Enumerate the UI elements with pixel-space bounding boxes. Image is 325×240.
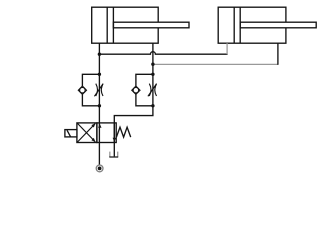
cylinder 1 piston xyxy=(107,7,113,43)
node: junction wire B on line 2 xyxy=(151,62,154,65)
cylinder 2 body xyxy=(218,7,286,43)
exhaust cup below U1 port R xyxy=(109,152,118,157)
U1 straight flow path B to R (arrow down) xyxy=(113,123,115,143)
solenoid coil of U1 xyxy=(65,130,77,137)
4/2 valve U1: right square (rest position) xyxy=(97,123,116,143)
wire A gray riser to cylinder 2 left port xyxy=(226,43,228,54)
check valve V2 (diamond + ball) xyxy=(132,86,140,94)
cylinder 2 piston xyxy=(234,7,240,43)
wire A: horizontal run to cylinder 2 left port (with jump over line 2) xyxy=(99,52,227,55)
wire: main line from cylinder 1 left port down to valve port A xyxy=(98,43,100,142)
return spring of U1 xyxy=(116,127,130,137)
compressed air source xyxy=(96,143,103,172)
4/2 valve U1: left square (actuated position) xyxy=(77,123,97,143)
node: V1 loop bottom junction xyxy=(98,104,101,107)
wire B black riser to cylinder 2 right port xyxy=(277,43,279,65)
cylinder 1 piston rod xyxy=(113,22,189,28)
flow control valve V1 bypass loop xyxy=(82,74,99,106)
node: V2 loop bottom junction xyxy=(151,104,154,107)
cylinder 1 body xyxy=(92,7,159,43)
throttle V2 (arcs + adjustment arrow) xyxy=(148,84,157,97)
node: V1 loop top junction xyxy=(98,73,101,76)
throttle V1 (arcs + adjustment arrow) xyxy=(94,84,103,97)
cylinder 2 piston rod xyxy=(240,22,316,28)
node: junction wire A on line 1 xyxy=(98,53,101,56)
node: V2 loop top junction xyxy=(151,73,154,76)
U1 crossed arrows xyxy=(78,123,96,142)
U1 straight flow path P to A (arrow up) xyxy=(98,124,101,128)
check valve V1 (diamond + ball) xyxy=(78,86,86,94)
wire: line 2 from cylinder 1 right port down, jog left into valve port B, to exhaust xyxy=(114,43,153,157)
wire B: gray horizontal run to cylinder 2 right port xyxy=(153,63,278,65)
flow control valve V2 bypass loop xyxy=(136,74,153,106)
